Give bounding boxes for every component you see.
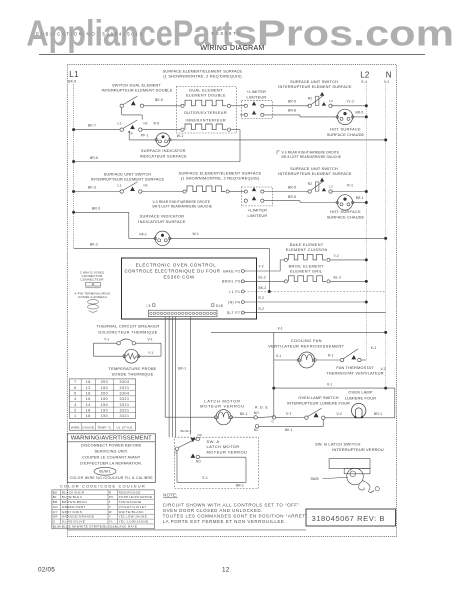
svg-text:BK-1: BK-1 — [240, 412, 248, 416]
svg-text:150: 150 — [101, 414, 109, 418]
switch fan thermostat — [340, 358, 343, 361]
svg-text:LA PORTE EST FERMEE ET NON VER: LA PORTE EST FERMEE ET NON VERROUILLEE. — [163, 519, 287, 524]
wire coil1 to limiter1 — [231, 105, 244, 107]
svg-text:TEMPERATURE PROBE: TEMPERATURE PROBE — [108, 366, 156, 371]
svg-text:O: O — [53, 520, 56, 524]
svg-text:P: P — [131, 132, 133, 136]
svg-text:L1: L1 — [118, 122, 122, 126]
svg-text:E-4: E-4 — [362, 80, 368, 84]
wire P3 to broil BL-2 — [244, 280, 284, 282]
svg-text:+LIMITER: +LIMITER — [248, 209, 267, 213]
wire L1 BR-6 row — [74, 161, 240, 163]
svg-text:R: R — [109, 490, 112, 494]
resistor bake element — [284, 258, 287, 261]
svg-text:THERMAL CIRCUIT BREAKER: THERMAL CIRCUIT BREAKER — [97, 324, 160, 329]
header rule — [39, 53, 425, 55]
svg-text:K-1: K-1 — [371, 346, 377, 350]
wire coil2 to junction — [231, 129, 240, 131]
svg-text:D’EFFECTUER LA REPARATION.: D’EFFECTUER LA REPARATION. — [80, 461, 142, 465]
component box dual element — [176, 87, 236, 134]
svg-text:R. D. S.: R. D. S. — [255, 406, 269, 410]
svg-text:LATCH MOTOR: LATCH MOTOR — [204, 398, 240, 403]
svg-text:W-1: W-1 — [193, 232, 199, 236]
svg-text:L2: L2 — [360, 71, 370, 80]
wire sw1b to L2 — [331, 105, 366, 107]
motor latch motor M2 — [216, 410, 231, 425]
wire tap to indicator1 — [128, 132, 130, 140]
svg-text:R-2: R-2 — [259, 307, 265, 311]
svg-text:V-2: V-2 — [381, 367, 386, 371]
component box SW A — [175, 437, 259, 488]
svg-text:V-2: V-2 — [384, 80, 389, 84]
wire to fan motor — [274, 359, 299, 361]
wire N vertical — [385, 85, 387, 389]
svg-text:W: W — [109, 510, 112, 514]
svg-text:HOT SURFACE: HOT SURFACE — [330, 210, 361, 214]
svg-text:INTERRUPTEUR ELEMENT DOUBLE: INTERRUPTEUR ELEMENT DOUBLE — [102, 87, 173, 92]
svg-text:H1: H1 — [144, 183, 149, 187]
svg-text:N: N — [386, 71, 392, 80]
svg-text:BL/W: BL/W — [53, 524, 61, 528]
wire sw2a to element2 — [142, 191, 183, 193]
svg-text:HOT SURFACE: HOT SURFACE — [330, 128, 361, 132]
svg-text:I 5: I 5 — [147, 304, 151, 308]
wire element2 to limiter2 — [229, 191, 244, 193]
svg-text:CONTROLE ELECTRONIQUE DU FOUR: CONTROLE ELECTRONIQUE DU FOUR — [125, 269, 221, 274]
limiter1 contact row2 — [244, 113, 247, 116]
svg-text:3304: 3304 — [120, 391, 130, 395]
svg-text:BR-5: BR-5 — [288, 185, 296, 189]
svg-text:3321: 3321 — [120, 414, 130, 418]
svg-text:R2: R2 — [308, 96, 312, 100]
svg-text:OVEN LAMP: OVEN LAMP — [348, 390, 372, 394]
wire to probe — [93, 355, 124, 357]
svg-text:12: 12 — [86, 386, 91, 390]
component box limiter 1 — [242, 101, 273, 119]
resistor outer element coil — [181, 104, 184, 107]
wire V-1 lamp row — [274, 387, 395, 389]
svg-text:16: 16 — [86, 397, 91, 401]
svg-text:BAKE P2: BAKE P2 — [223, 269, 240, 273]
svg-text:DISJONCTEUR THERMIQUE: DISJONCTEUR THERMIQUE — [98, 330, 157, 335]
svg-text:NO: NO — [196, 460, 201, 464]
svg-text:GRAY/GRIS: GRAY/GRIS — [62, 510, 83, 514]
svg-text:NC: NC — [198, 433, 203, 437]
svg-text:3321: 3321 — [120, 408, 130, 412]
svg-text:12: 12 — [222, 567, 230, 574]
svg-text:W-1: W-1 — [177, 134, 183, 138]
wire strip drop 5 — [189, 317, 191, 435]
svg-text:BR-5: BR-5 — [288, 195, 296, 199]
note bracket V-3 — [277, 151, 280, 154]
svg-text:BR-6: BR-6 — [90, 156, 98, 160]
svg-text:Y-2: Y-2 — [259, 265, 264, 269]
svg-text:SONDE THERMIQUE: SONDE THERMIQUE — [112, 372, 154, 377]
svg-text:PU: PU — [109, 495, 114, 499]
cam SW B mechanism — [347, 468, 364, 485]
terminal strip P5 — [148, 310, 217, 316]
svg-text:Y: Y — [109, 515, 111, 519]
svg-text:7: 7 — [74, 380, 77, 384]
svg-text:200: 200 — [101, 380, 109, 384]
wire P2 to bake Y-2 — [244, 270, 280, 272]
component box electronic oven control U1 — [122, 258, 257, 319]
wire SWA loop — [176, 450, 178, 482]
svg-text:18: 18 — [86, 380, 91, 384]
inner bottom border — [67, 529, 306, 531]
motor cooling fan M1 — [299, 352, 315, 368]
limiter2 contact row1 — [244, 190, 247, 193]
svg-text:SURFACE CHAUDE: SURFACE CHAUDE — [327, 133, 365, 137]
svg-text:200: 200 — [101, 391, 109, 395]
svg-text:PA-1: PA-1 — [140, 233, 148, 237]
svg-text:3304: 3304 — [120, 380, 130, 384]
component box limiter 2 — [242, 187, 273, 206]
wire L1 BR-3 row — [74, 211, 129, 213]
svg-text:BK-1: BK-1 — [178, 367, 186, 371]
svg-text:TAN/HAVANE: TAN/HAVANE — [119, 500, 142, 504]
svg-text:YL-2: YL-2 — [347, 100, 355, 104]
svg-text:L2: L2 — [329, 99, 333, 103]
switch RDS — [254, 416, 257, 419]
svg-text:V-2: V-2 — [337, 412, 342, 416]
svg-text:BR-3: BR-3 — [92, 206, 100, 210]
wire motor to RDS — [233, 416, 254, 418]
wire gauge table — [70, 379, 136, 419]
svg-text:(1 SHOWN/MONTRE, 2 REQ’D/REQUI: (1 SHOWN/MONTRE, 2 REQ’D/REQUIS) — [181, 175, 260, 180]
svg-text:14: 14 — [86, 403, 91, 407]
svg-text:INNER/INTERIEUR: INNER/INTERIEUR — [186, 118, 227, 122]
svg-text:BROWN/BRUN: BROWN/BRUN — [62, 500, 87, 504]
svg-text:NOTE:: NOTE: — [163, 492, 177, 497]
wire L1 BK-2 row — [74, 247, 270, 249]
svg-text:150: 150 — [101, 397, 109, 401]
svg-text:BL-2: BL-2 — [334, 276, 342, 280]
svg-text:V-3 REAR RIGHT/ARRIERE DROITE: V-3 REAR RIGHT/ARRIERE DROITE — [153, 200, 211, 204]
svg-text:L1 P1: L1 P1 — [229, 290, 240, 294]
svg-text:2: 2 — [74, 408, 77, 412]
svg-text:NO: NO — [254, 411, 259, 415]
svg-text:CONNECTEUR: CONNECTEUR — [80, 278, 104, 282]
bracket SW B body — [329, 459, 370, 469]
svg-text:BROIL ELEMENT: BROIL ELEMENT — [289, 264, 324, 268]
wire BR-3 drop to indicator2 — [128, 212, 130, 238]
svg-text:VENTILATEUR REFROIDISSEMENT: VENTILATEUR REFROIDISSEMENT — [268, 343, 344, 348]
wire hot1 to L2 — [353, 116, 367, 118]
wire rds to lamp switch — [276, 416, 305, 418]
svg-text:BL/W-1: BL/W-1 — [99, 470, 110, 474]
svg-text:INTERRUPTEUR ELEMENT SURFACE: INTERRUPTEUR ELEMENT SURFACE — [91, 177, 165, 182]
svg-text:R-5: R-5 — [154, 122, 160, 126]
svg-text:V-1: V-1 — [276, 354, 281, 358]
svg-text:3321: 3321 — [120, 397, 130, 401]
wire jog rowA-rowB — [121, 108, 123, 115]
svg-text:E-1: E-1 — [203, 476, 208, 480]
wire motor to thermostat — [316, 359, 340, 361]
wire rowA to coil1 — [144, 105, 181, 107]
contact SWA NO — [191, 454, 196, 458]
indicator lamp surface indicator 1 — [156, 133, 170, 147]
svg-text:sPros.com: sPros.com — [233, 12, 454, 53]
schematic frame — [67, 65, 396, 537]
svg-text:L2: L2 — [329, 185, 333, 189]
svg-text:OVEN LAMP SWITCH: OVEN LAMP SWITCH — [298, 396, 338, 400]
svg-text:SURFACE CHAUDE: SURFACE CHAUDE — [327, 216, 365, 220]
svg-text:BK-1: BK-1 — [285, 428, 293, 432]
wire indicator1 to N — [170, 139, 386, 141]
svg-text:DISCONNECT POWER BEFORE: DISCONNECT POWER BEFORE — [81, 443, 142, 447]
svg-text:C: C — [272, 419, 275, 423]
svg-text:WHITE/BLANC: WHITE/BLANC — [119, 510, 145, 514]
wire L1 vertical — [73, 84, 75, 248]
wire V-1 long row — [211, 331, 386, 333]
wire limiter2 to switch2b — [264, 191, 309, 193]
wire limiter2 to hot2 — [264, 200, 300, 202]
svg-text:V-3 REAR RIGHT/ARRIERE DROITE: V-3 REAR RIGHT/ARRIERE DROITE — [282, 150, 340, 154]
wire strip drop 1 to latch motor — [164, 317, 166, 418]
svg-text:FAN THERMOSTAT: FAN THERMOSTAT — [336, 366, 374, 370]
svg-text:GN: GN — [53, 505, 58, 509]
svg-text:ELEMENT CUISSON: ELEMENT CUISSON — [286, 248, 328, 252]
svg-text:MOTEUR VERROU: MOTEUR VERROU — [200, 404, 245, 409]
wire strip drop 3 — [172, 317, 174, 438]
svg-text:3321: 3321 — [120, 386, 130, 390]
svg-text:(1 SHOWN/MONTRE, 2 REQ’D/REQUI: (1 SHOWN/MONTRE, 2 REQ’D/REQUIS) — [163, 73, 242, 78]
wire limiter1 to switch1b BR-5 — [264, 105, 309, 107]
svg-text:PURPLE/POURPRE: PURPLE/POURPRE — [119, 495, 153, 499]
svg-text:3: 3 — [74, 403, 77, 407]
svg-text:OLIVE/OLIVE: OLIVE/OLIVE — [62, 520, 85, 524]
svg-text:318045067 REV: B: 318045067 REV: B — [312, 514, 386, 523]
indicator hot surface 1 — [337, 109, 352, 124]
svg-text:1: 1 — [74, 414, 77, 418]
svg-text:BR-5: BR-5 — [288, 100, 296, 104]
svg-text:OR: OR — [53, 515, 59, 519]
svg-text:L1: L1 — [118, 183, 122, 187]
limiter2 contact row2 — [244, 199, 247, 202]
svg-text:ELEMENT GRIL: ELEMENT GRIL — [290, 270, 323, 274]
svg-text:INDICATEUR SURFACE: INDICATEUR SURFACE — [140, 153, 188, 158]
wire L1 to rowB BK-7 — [74, 129, 120, 131]
svg-text:BLUE/BLEU: BLUE/BLEU — [62, 495, 83, 499]
svg-text:BL-2: BL-2 — [259, 276, 266, 280]
svg-text:BR-5: BR-5 — [356, 111, 364, 115]
svg-text:WIRE: WIRE — [71, 425, 80, 429]
svg-text:BL: BL — [53, 495, 57, 499]
svg-text:R2: R2 — [308, 182, 312, 186]
svg-text:T: T — [109, 500, 111, 504]
svg-text:18: 18 — [86, 408, 91, 412]
svg-text:TOUTES LES COMMANDES SONT EN P: TOUTES LES COMMANDES SONT EN POSITION “A… — [163, 514, 310, 519]
wire strip drop 2 — [168, 317, 170, 438]
wire P7 R-2 — [244, 312, 385, 314]
svg-text:Y-2: Y-2 — [334, 254, 339, 258]
svg-text:THERMOSTAT VENTILATEUR: THERMOSTAT VENTILATEUR — [326, 371, 384, 375]
wire bake to L2 — [330, 259, 366, 261]
svg-text:SW.B: SW.B — [311, 477, 319, 481]
svg-text:CIRCUIT SHOWN WITH ALL CONTROL: CIRCUIT SHOWN WITH ALL CONTROLS SET TO “… — [163, 502, 302, 507]
wire BK-2 drop to P1 — [268, 248, 270, 291]
wire rowB to coil2 — [142, 129, 181, 131]
wire hot2 to L2 — [353, 202, 367, 204]
svg-text:R-1: R-1 — [328, 354, 334, 358]
wire NC row BK-1 — [259, 426, 324, 428]
svg-text:UL STYLE: UL STYLE — [116, 425, 132, 429]
switch surface unit 2b — [308, 190, 311, 193]
svg-text:18: 18 — [86, 391, 91, 395]
svg-text:GREEN/VERT: GREEN/VERT — [62, 505, 86, 509]
svg-text:OVEN DOOR CLOSED AND UNLOCKED.: OVEN DOOR CLOSED AND UNLOCKED. — [163, 508, 263, 513]
svg-text:BK-5: BK-5 — [155, 98, 163, 102]
pilot tap P — [128, 131, 130, 133]
svg-text:INTERRUPTEUR VERROU: INTERRUPTEUR VERROU — [332, 447, 383, 452]
wire strip drop 4 — [175, 317, 177, 438]
svg-text:WARNING/AVERTISSEMENT: WARNING/AVERTISSEMENT — [71, 436, 152, 442]
svg-text:BN-8: BN-8 — [288, 109, 296, 113]
svg-text:COLOR CODE/CODE COULEUR: COLOR CODE/CODE COULEUR — [60, 485, 146, 489]
svg-text:DLB: DLB — [216, 304, 223, 308]
svg-text:COLOR WIRE NO./COULEUR FIL & C: COLOR WIRE NO./COULEUR FIL & CALIBRE — [70, 476, 154, 480]
resistor inner element coil — [181, 128, 184, 131]
svg-text:4: 4 — [74, 397, 77, 401]
svg-text:H1: H1 — [144, 122, 149, 126]
svg-text:5: 5 — [74, 391, 77, 395]
svg-text:PF-1: PF-1 — [141, 134, 149, 138]
svg-text:MOTEUR VERROU: MOTEUR VERROU — [207, 449, 248, 454]
svg-text:INTERRUPTEUR ELEMENT SURFACE: INTERRUPTEUR ELEMENT SURFACE — [278, 171, 352, 176]
svg-text:Y-1: Y-1 — [148, 351, 153, 355]
svg-text:BR: BR — [53, 500, 58, 504]
svg-text:SW. A: SW. A — [207, 439, 220, 444]
svg-text:BR-5 LEFT REAR/ARRIERE GAUCHE: BR-5 LEFT REAR/ARRIERE GAUCHE — [153, 204, 213, 208]
svg-text:3321: 3321 — [120, 403, 130, 407]
svg-text:18: 18 — [86, 414, 91, 418]
svg-text:LIMITEUR: LIMITEUR — [247, 95, 267, 99]
wire breaker sides — [92, 343, 94, 356]
svg-text:V-1: V-1 — [278, 327, 283, 331]
svg-text:ORANGE/ORANGE: ORANGE/ORANGE — [62, 515, 95, 519]
svg-text:GY: GY — [53, 510, 58, 514]
svg-text:BR-1: BR-1 — [356, 196, 364, 200]
wire fan feed drop — [273, 332, 275, 417]
lamp oven lamp DS1 — [352, 403, 366, 417]
svg-text:INDICATEUR SURFACE: INDICATEUR SURFACE — [138, 219, 186, 224]
switch oven lamp switch — [305, 416, 308, 419]
svg-text:COOLING FAN: COOLING FAN — [291, 338, 322, 343]
svg-text:BL/W-1: BL/W-1 — [181, 429, 192, 433]
svg-text:SURFACE INDICATOR: SURFACE INDICATOR — [140, 214, 185, 219]
wire indicator2 to N — [170, 237, 386, 239]
svg-text:V-1: V-1 — [148, 337, 153, 341]
wire lamp right riser — [394, 388, 396, 418]
contact SWA NC — [191, 438, 196, 442]
svg-text:COSSE A ANNEAU: COSSE A ANNEAU — [78, 295, 107, 299]
svg-text:GAUGE: GAUGE — [82, 425, 94, 429]
wire P1 dashed BK-2 — [244, 291, 385, 293]
svg-text:BROIL P3: BROIL P3 — [222, 280, 240, 284]
pin block DLB — [212, 304, 215, 307]
svg-text:TEMP °C: TEMP °C — [97, 425, 112, 429]
part number box — [306, 509, 396, 526]
svg-text:LATCH MOTOR: LATCH MOTOR — [207, 444, 240, 449]
svg-text:BR-1: BR-1 — [236, 484, 244, 488]
svg-text:BR-1: BR-1 — [374, 412, 382, 416]
wire limiter1 to hot1 BN-8 — [264, 114, 300, 116]
svg-text:6: 6 — [74, 386, 77, 390]
svg-text:BK-7: BK-7 — [88, 123, 96, 127]
wire L1 to switch2a BK-3 — [74, 191, 120, 193]
svg-text:DUAL ELEMENT: DUAL ELEMENT — [189, 89, 223, 93]
svg-text:(N) P4: (N) P4 — [228, 300, 240, 304]
svg-text:150: 150 — [101, 386, 109, 390]
svg-text:BK: BK — [53, 490, 58, 494]
switch SW dual row B — [120, 128, 123, 131]
svg-text:DLT P7: DLT P7 — [227, 311, 241, 315]
limiter1 contact row1 — [244, 104, 247, 107]
svg-text:BK-2: BK-2 — [259, 286, 267, 290]
svg-text:RED/ROUGE: RED/ROUGE — [119, 490, 141, 494]
switch surface unit 1b — [308, 104, 311, 107]
svg-text:R-1: R-1 — [347, 184, 353, 188]
wire thermostat to L2 — [361, 359, 366, 361]
svg-text:NC: NC — [254, 428, 259, 432]
svg-text:OUTER/EXTERIEUR: OUTER/EXTERIEUR — [184, 111, 227, 115]
svg-text:02/05: 02/05 — [38, 567, 55, 574]
svg-text:ES300 COM: ES300 COM — [164, 274, 195, 279]
svg-text:YEL-LOW/JAUNE: YEL-LOW/JAUNE — [119, 520, 149, 524]
wire sw2b to L2 — [331, 191, 366, 193]
svg-text:+LIMITER: +LIMITER — [247, 90, 266, 94]
svg-text:R-2: R-2 — [259, 296, 265, 300]
indicator lamp surface indicator 2 — [155, 231, 170, 246]
svg-text:BLUE W/WHITE STRIPE/BLEU&BLANC: BLUE W/WHITE STRIPE/BLEU&BLANC RAYE — [62, 524, 137, 528]
wire gauge table footer — [70, 422, 136, 430]
indicator hot surface 2 — [337, 195, 352, 210]
contact RDS NC — [255, 425, 258, 428]
breaker CB1 — [93, 342, 117, 344]
svg-text:VIOLET/VIOLET: VIOLET/VIOLET — [119, 505, 147, 509]
svg-text:SERVICING UNIT.: SERVICING UNIT. — [94, 449, 128, 453]
svg-text:ELEMENT DOUBLE: ELEMENT DOUBLE — [186, 94, 226, 98]
svg-text:BAKE ELEMENT: BAKE ELEMENT — [290, 243, 324, 247]
svg-text:INTERRUPTEUR LUMIERE FOUR: INTERRUPTEUR LUMIERE FOUR — [287, 401, 350, 405]
svg-text:WIRING DIAGRAM: WIRING DIAGRAM — [200, 45, 264, 52]
wire lamp row — [325, 417, 395, 419]
svg-text:LIMITEUR: LIMITEUR — [248, 214, 268, 218]
svg-text:ELECTRONIC OVEN CONTROL: ELECTRONIC OVEN CONTROL — [136, 263, 217, 268]
warning box — [67, 434, 155, 483]
resistor broil element — [284, 280, 287, 283]
svg-text:LUMIERE FOUR: LUMIERE FOUR — [345, 396, 376, 400]
wire L2 vertical — [365, 85, 367, 361]
svg-text:L1: L1 — [69, 70, 79, 79]
svg-text:V: V — [109, 505, 111, 509]
svg-text:U-1: U-1 — [286, 412, 292, 416]
switch SWA lever — [175, 447, 178, 450]
wire P4 to L2 R-2 — [244, 301, 366, 303]
svg-text:Y-1: Y-1 — [104, 337, 109, 341]
svg-text:150: 150 — [101, 403, 109, 407]
svg-text:BK-2: BK-2 — [90, 242, 98, 246]
switch surface unit 2a — [120, 190, 123, 193]
svg-text:YELLOW/JAUNE: YELLOW/JAUNE — [119, 515, 148, 519]
resistor surface element 2 — [183, 190, 186, 193]
svg-text:BLACK/NOIR: BLACK/NOIR — [62, 490, 85, 494]
svg-text:V-1: V-1 — [327, 382, 332, 386]
svg-text:BR-5 LEFT REAR/ARRIERE GAUCHE: BR-5 LEFT REAR/ARRIERE GAUCHE — [282, 155, 342, 159]
svg-text:YL: YL — [109, 520, 113, 524]
wire limiter1 row2 stub — [240, 114, 244, 116]
